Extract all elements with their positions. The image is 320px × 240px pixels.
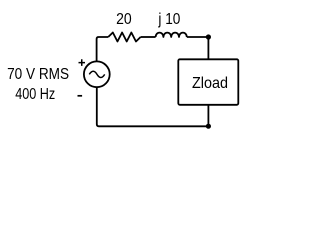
junction dot top	[206, 34, 211, 39]
plus polarity mark	[79, 59, 86, 66]
svg-text:400 Hz: 400 Hz	[15, 86, 55, 103]
inductor j10	[156, 33, 187, 37]
resistor 20	[108, 33, 140, 42]
wire: Zload box bottom down to bottom junction	[207, 105, 209, 127]
AC source sine symbol	[89, 71, 104, 77]
wire: resistor to inductor	[141, 36, 156, 38]
wire: top-left elbow from source top to resistor	[97, 37, 109, 61]
wire: inductor to top-right junction	[187, 36, 209, 38]
junction dot bottom	[206, 124, 211, 129]
svg-text:Zload: Zload	[192, 75, 228, 92]
svg-text:j 10: j 10	[158, 11, 181, 28]
svg-text:70 V RMS: 70 V RMS	[7, 66, 69, 83]
wire: junction down to Zload box top	[207, 37, 209, 60]
minus polarity mark	[78, 95, 83, 97]
wire: source bottom to bottom-left elbow to bottom junction	[97, 88, 209, 127]
AC source V1 circle	[84, 61, 110, 87]
Zload box	[178, 59, 238, 105]
svg-text:20: 20	[116, 11, 132, 28]
